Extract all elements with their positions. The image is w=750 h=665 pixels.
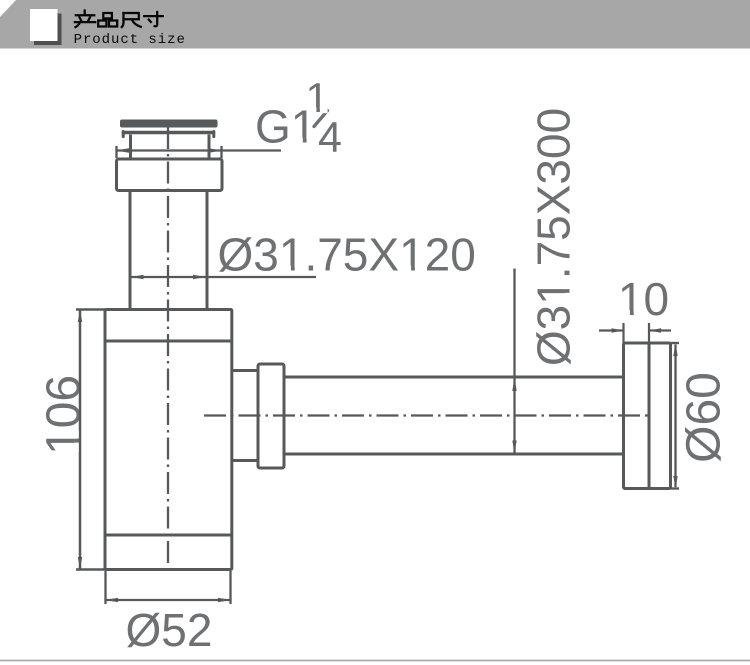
svg-text:Ø60: Ø60 bbox=[678, 372, 731, 463]
svg-text:Ø31.75X120: Ø31.75X120 bbox=[218, 229, 476, 281]
svg-text:Product size: Product size bbox=[74, 32, 186, 48]
svg-text:Ø52: Ø52 bbox=[126, 604, 213, 656]
svg-text:4: 4 bbox=[318, 114, 342, 162]
svg-text:Ø31.75X300: Ø31.75X300 bbox=[528, 108, 580, 366]
svg-text:10: 10 bbox=[618, 273, 669, 325]
svg-text:106: 106 bbox=[38, 375, 91, 455]
